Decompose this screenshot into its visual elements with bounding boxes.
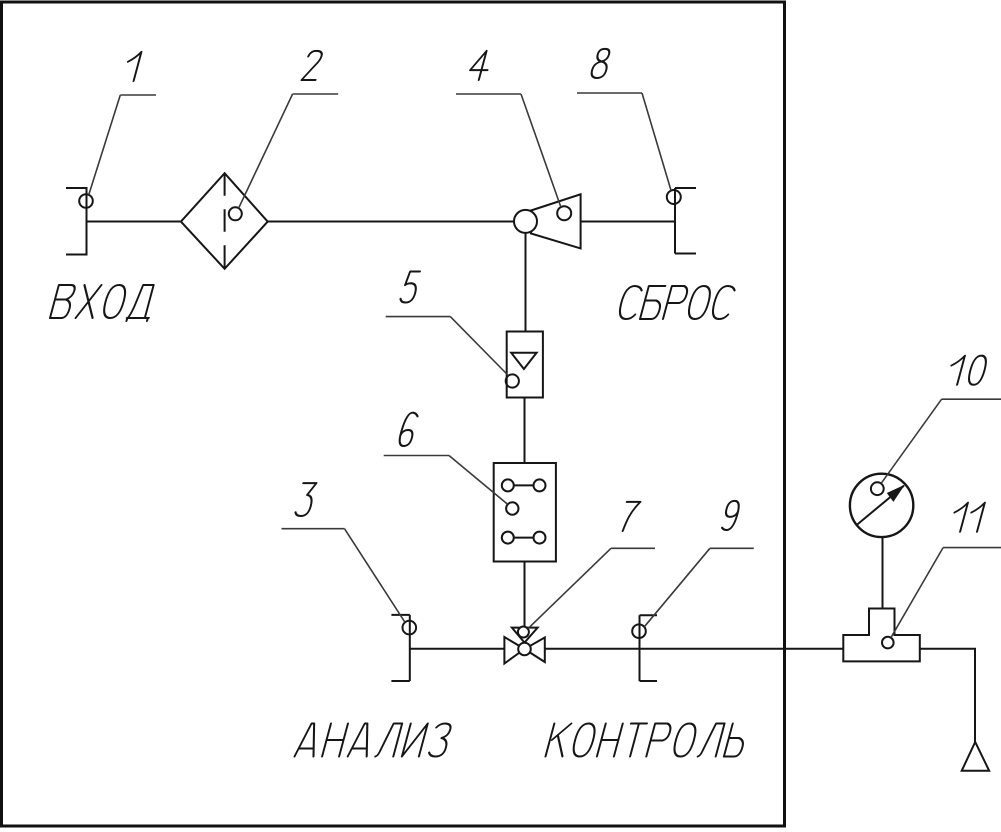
fitting 3 (analysis union) [391, 615, 416, 681]
block 6 (humidity sensor block) [494, 463, 556, 562]
enclosure boundary [2, 2, 785, 826]
fitting 8 (discharge union) [667, 188, 696, 254]
wire control run to tee [545, 648, 844, 650]
label 10 [881, 356, 1001, 484]
label 1 [89, 52, 156, 195]
pressure gauge 10 [850, 474, 913, 537]
label 9 [644, 501, 753, 627]
text КОНТРОЛЬ [546, 724, 749, 757]
label 8 [577, 49, 671, 191]
wire analysis branch [410, 648, 505, 650]
tee 11 [843, 609, 920, 662]
text ВХОД [49, 285, 157, 321]
text СБРОС [617, 286, 736, 319]
wire filter to valve 4 [268, 221, 516, 223]
wire valve 4 down to rotameter [525, 233, 527, 332]
label 5 [386, 271, 509, 375]
label 11 [891, 503, 1001, 638]
wire rotameter to block 6 [524, 398, 526, 464]
text АНАЛИЗ [295, 724, 453, 757]
wire block 6 down to valve 7 [524, 562, 526, 629]
wire gauge to tee 11 [882, 537, 884, 608]
valve 7 (three-way cock) [504, 627, 544, 664]
valve 4 (regulator with cone) [514, 194, 581, 248]
rotameter 5 [506, 332, 543, 398]
wire inlet to filter [86, 221, 181, 223]
label 6 [384, 413, 508, 505]
vent triangle [962, 742, 990, 771]
wire tee to vent [920, 649, 975, 742]
label 2 [239, 51, 339, 208]
fitting 9 (control union) [632, 615, 657, 681]
fitting 1 (inlet union) [66, 188, 93, 255]
wire valve 4 to outlet [581, 221, 675, 223]
label 7 [528, 502, 655, 628]
filter F1 (diamond) [181, 173, 268, 269]
label 3 [282, 483, 405, 622]
label 4 [456, 51, 561, 207]
